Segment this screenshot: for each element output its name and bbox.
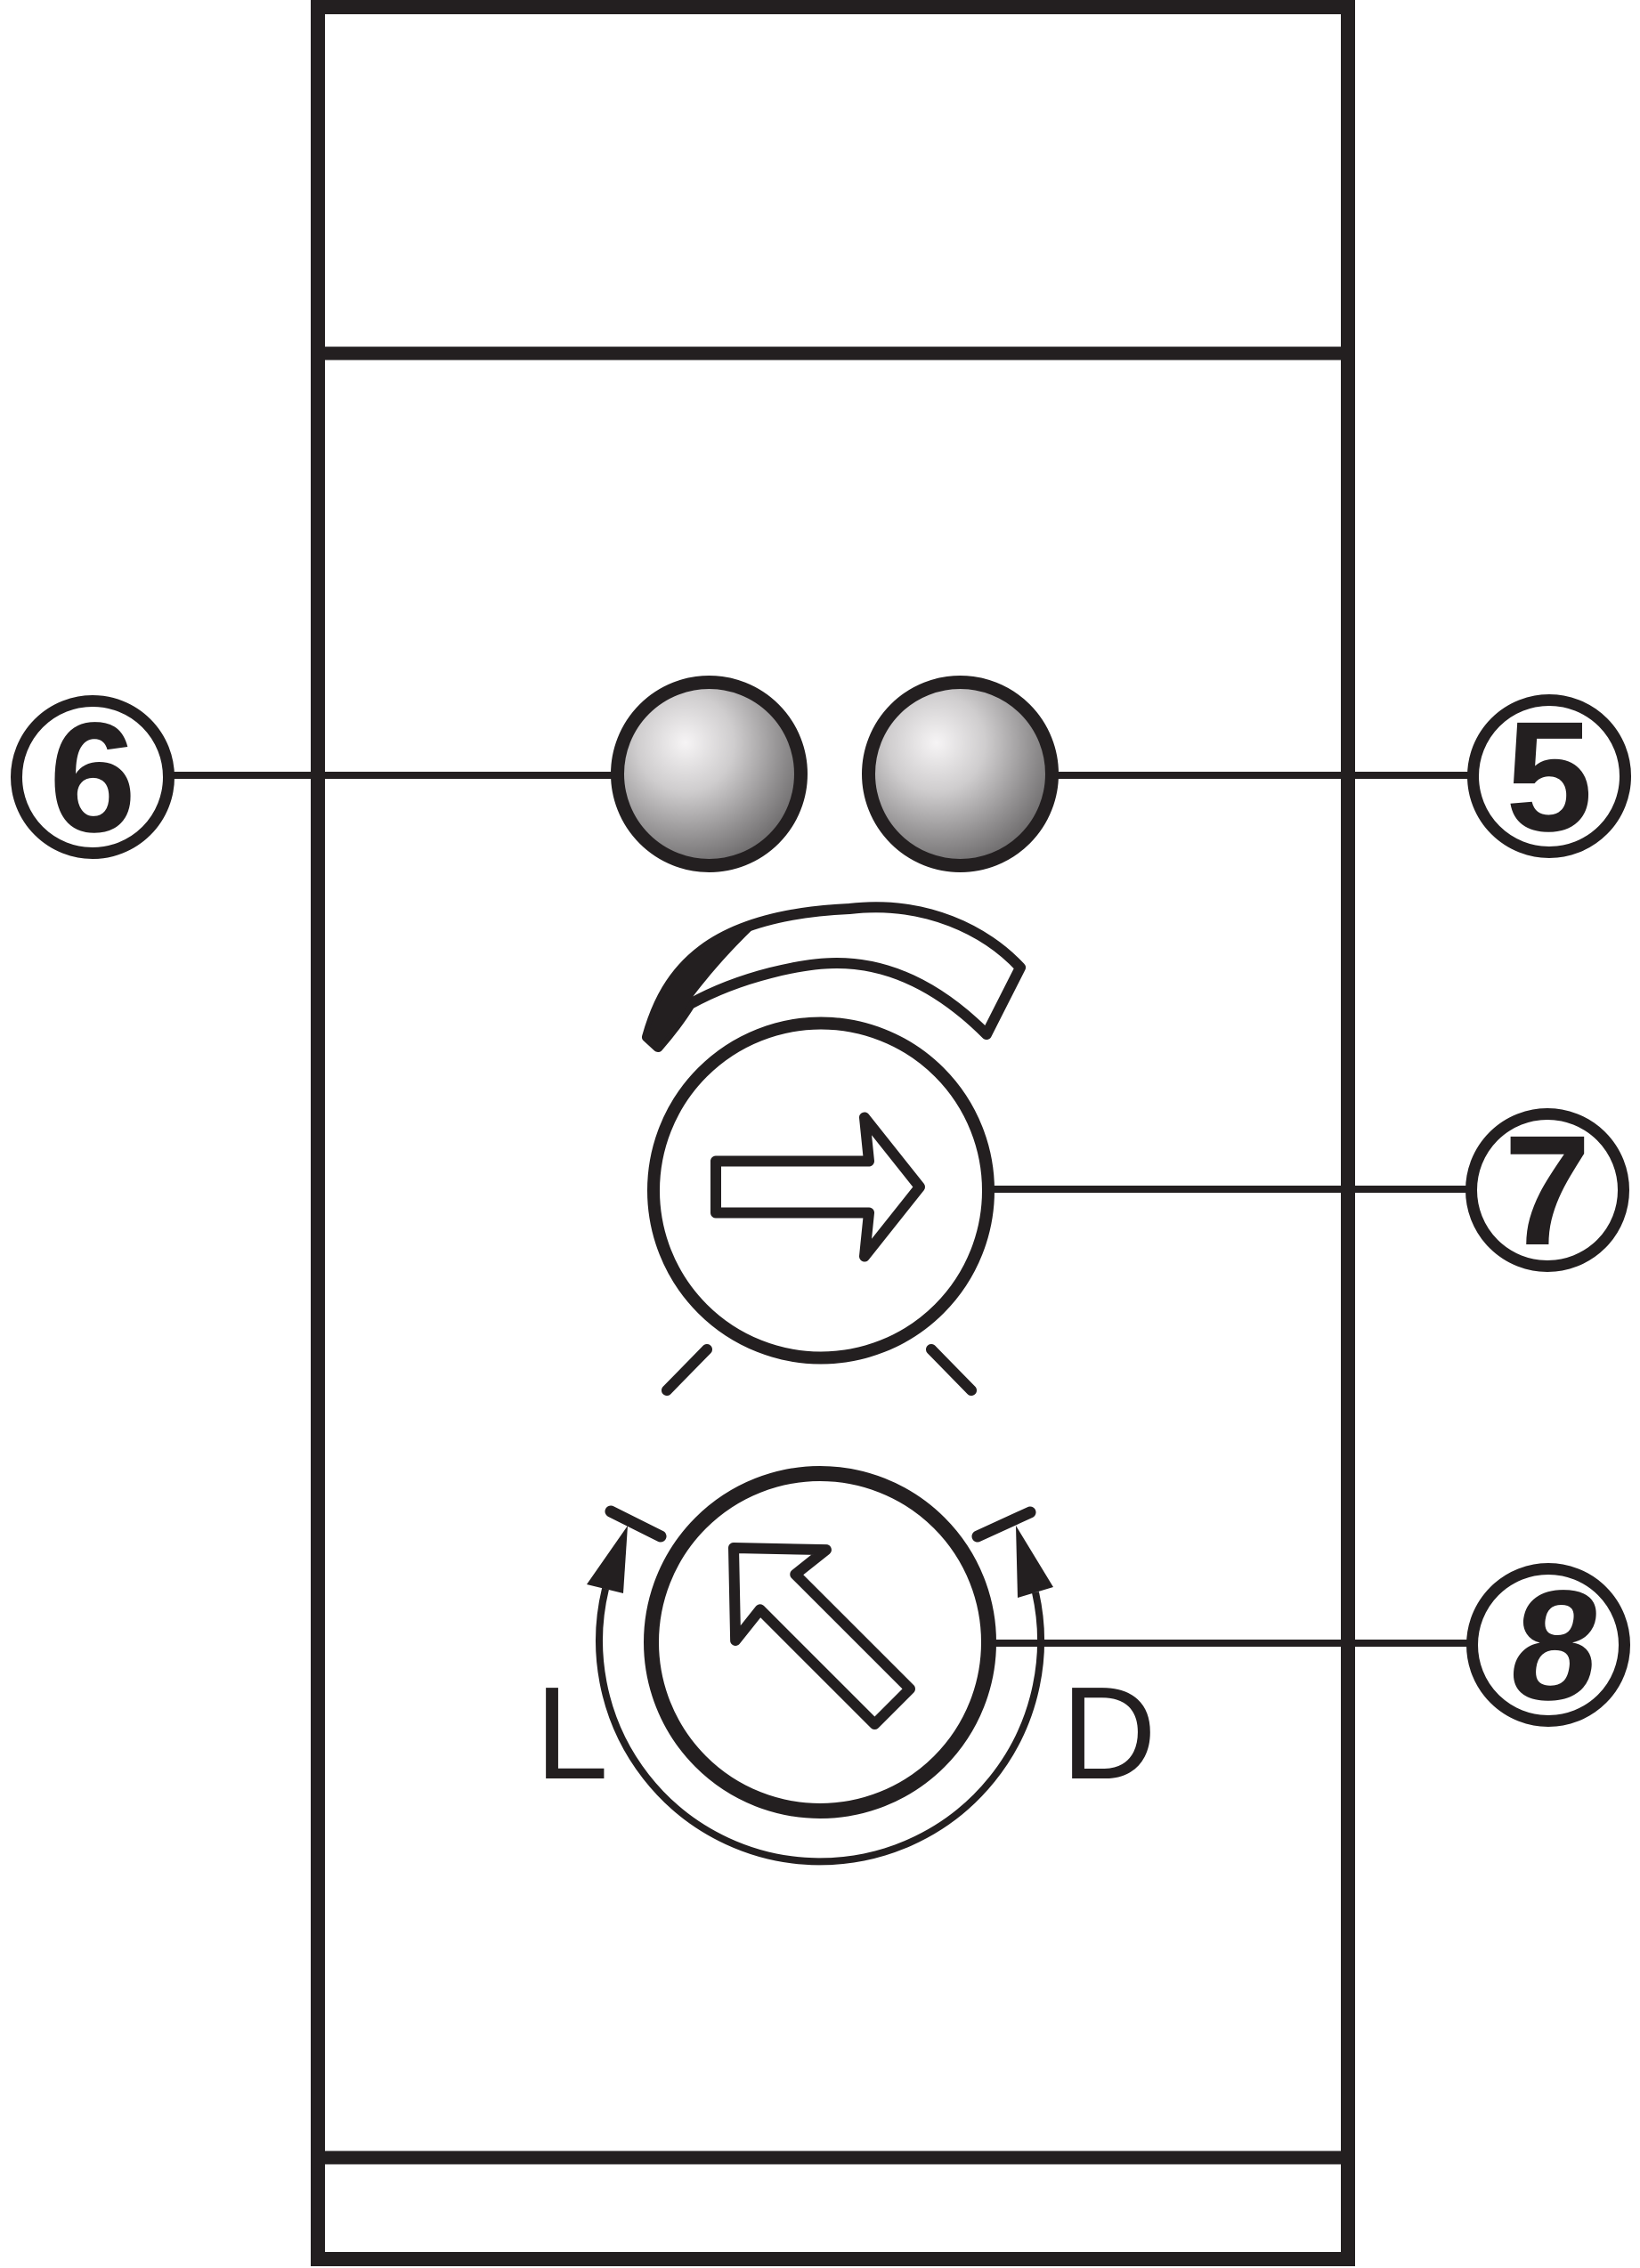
knob 8 pointer arrow (points up-left) [688, 1503, 938, 1752]
svg-text:5: 5 [1506, 690, 1593, 864]
knob 7 left tick mark [667, 1349, 707, 1390]
knob 8 right end-stop tick [978, 1512, 1030, 1536]
knob 7 (drive direction knob) [654, 1024, 988, 1358]
callout line 5 [1056, 772, 1473, 779]
callout circle 7 [1472, 1114, 1624, 1267]
rotate-counterclockwise arrow above knob 7 (white band) [647, 907, 1020, 1047]
knob 7 right tick mark [931, 1349, 971, 1390]
callout line 7 [990, 1186, 1471, 1193]
svg-text:7: 7 [1504, 1104, 1591, 1278]
LED 6 (left indicator sphere) [618, 683, 801, 866]
callout circle 6 [17, 701, 169, 854]
knob 8 rotation range arc [599, 1589, 1041, 1861]
svg-text:6: 6 [49, 691, 136, 865]
rotate-counterclockwise arrow head (solid wedge) [647, 922, 760, 1047]
callout circle 8 [1473, 1569, 1625, 1721]
callout line 8 [988, 1640, 1472, 1647]
knob 7 direction arrow (points right) [716, 1118, 920, 1257]
knob 8 arc left arrowhead [587, 1526, 628, 1593]
panel outline (device front face) [318, 7, 1348, 2259]
callout circle 5 [1474, 701, 1626, 853]
svg-text:D: D [1061, 1660, 1157, 1807]
panel top seam line [313, 347, 1353, 360]
knob 8 (L/D adjustment knob) [652, 1474, 989, 1811]
panel bottom seam line [313, 2151, 1353, 2165]
knob 8 left end-stop tick [611, 1511, 661, 1536]
callout digit 8 [1500, 1559, 1612, 1733]
svg-text:L: L [535, 1660, 608, 1807]
LED 5 (right indicator sphere) [869, 683, 1052, 866]
knob 8 arc right arrowhead [1016, 1526, 1053, 1598]
callout line 6 [169, 772, 616, 779]
